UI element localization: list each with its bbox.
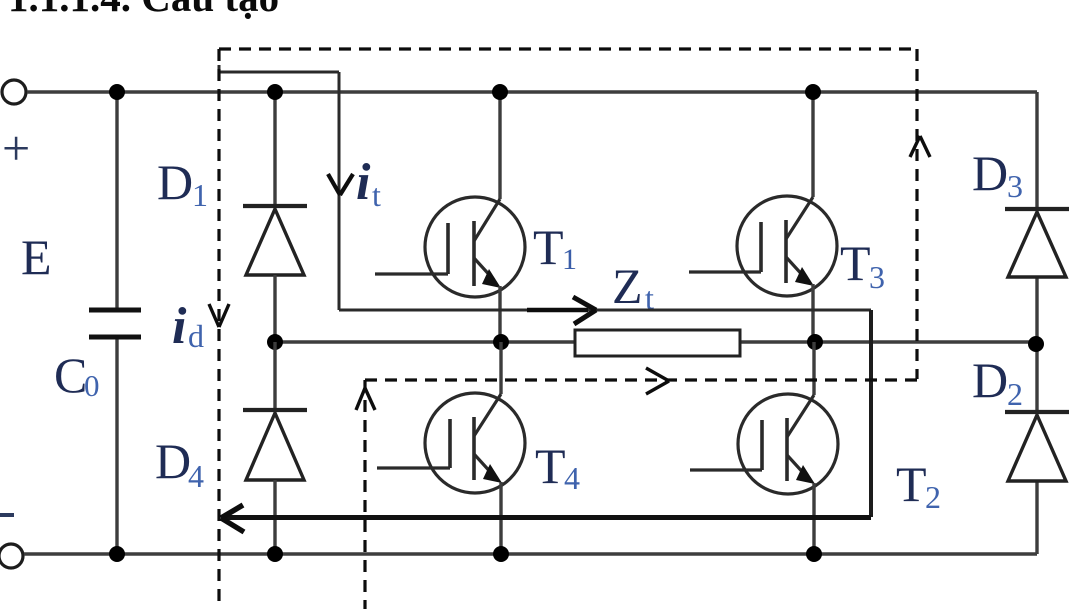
transistor T4 (IGBT) (377, 393, 525, 493)
svg-text:D: D (972, 352, 1008, 408)
svg-text:Z: Z (612, 258, 643, 314)
svg-text:3: 3 (1007, 168, 1023, 204)
dashed loop right vertical (915, 49, 918, 379)
svg-text:1: 1 (192, 177, 208, 213)
arrow dashed up (right side, open) (910, 136, 930, 157)
dashed loop left vertical (id path) (217, 49, 220, 609)
diode D3 (1005, 209, 1069, 277)
terminal top-left circle (2, 80, 26, 104)
wire solid loop it start stub (218, 65, 221, 78)
wire top rail (27, 90, 1037, 93)
dashed loop middle horizontal (365, 378, 917, 381)
wire T2 branch top (812, 342, 815, 395)
svg-text:d: d (188, 318, 204, 354)
wire D1 branch upper (273, 92, 276, 206)
arrow loop right (into load, open barbs) (527, 297, 596, 324)
node dot D4 bottom (267, 546, 283, 562)
dashed loop top horizontal (219, 47, 917, 50)
minus label (0, 513, 14, 517)
svg-text:T: T (896, 456, 927, 512)
wire D1 to mid rail (273, 275, 276, 342)
wire T1 branch top (498, 92, 501, 199)
arrow it (down, open barbs) (328, 174, 353, 195)
svg-text:i: i (356, 154, 371, 211)
wire right branch vertical (1035, 92, 1038, 209)
wire solid loop middle horizontal (339, 309, 871, 312)
node dot top C0 (109, 84, 125, 100)
wire solid loop top segment (219, 71, 339, 74)
node dot T1 top (492, 84, 508, 100)
svg-text:4: 4 (188, 458, 204, 494)
arrow id (down, open) (209, 304, 229, 327)
svg-text:+: + (2, 120, 30, 176)
terminal bottom-left circle (0, 544, 23, 568)
arrow dashed right (middle, open) (646, 368, 669, 394)
diode D4 (243, 410, 307, 480)
wire D4 branch upper (273, 342, 276, 410)
svg-text:D: D (972, 145, 1008, 201)
svg-text:3: 3 (869, 259, 885, 295)
wire T3 to mid rail (811, 284, 814, 342)
svg-text:E: E (21, 229, 52, 285)
node dot D3 mid rail (1028, 336, 1044, 352)
svg-text:2: 2 (925, 479, 941, 515)
wire T4 to bottom rail (499, 482, 502, 554)
svg-text:C: C (54, 347, 87, 403)
wire bottom rail (24, 552, 1037, 555)
wire mid rail (load rail) (275, 340, 1037, 343)
node dot D1 top (267, 84, 283, 100)
wire C0 branch (115, 92, 118, 310)
svg-text:T: T (533, 219, 564, 275)
diode D2 (1005, 412, 1069, 481)
node dot T1 mid (493, 334, 509, 350)
node dot T4 bottom (493, 546, 509, 562)
svg-text:0: 0 (84, 368, 100, 403)
svg-text:D: D (155, 433, 191, 489)
load Zt rectangle (575, 330, 740, 356)
svg-text:D: D (157, 154, 193, 210)
wire solid loop bottom thick segment (222, 515, 871, 520)
dashed loop middle vertical (363, 380, 366, 609)
svg-text:T: T (840, 235, 871, 291)
transistor T1 (IGBT) (375, 197, 525, 297)
svg-text:t: t (372, 177, 381, 213)
wire T2 to bottom rail (812, 483, 815, 554)
node dot T2 bottom (806, 546, 822, 562)
svg-text:1: 1 (562, 243, 577, 276)
svg-text:T: T (535, 438, 566, 494)
node dot T3 top (805, 84, 821, 100)
node dot T3 mid (807, 334, 823, 350)
transistor T2 (IGBT) (690, 394, 838, 494)
diode D1 (243, 206, 307, 275)
arrow dashed up (middle, open) (356, 388, 375, 410)
node dot bottom C0 (109, 546, 125, 562)
capacitor C0 plates (89, 308, 141, 313)
svg-text:i: i (172, 298, 187, 355)
wire T3 branch top (811, 92, 814, 197)
transistor T3 (IGBT) (689, 196, 837, 296)
wire solid loop left vertical (338, 72, 341, 310)
svg-text:2: 2 (1007, 376, 1023, 412)
wire solid loop right vertical (869, 310, 873, 517)
wire D4 to bottom rail (273, 480, 276, 554)
svg-text:4: 4 (564, 460, 580, 496)
arrow loop left end (open barbs) (221, 505, 244, 532)
wire T4 branch top (499, 342, 502, 394)
node dot D1 mid rail (267, 334, 283, 350)
wire T1 to mid rail (498, 286, 501, 342)
svg-text:1.1.1.4. Cấu tạo: 1.1.1.4. Cấu tạo (8, 0, 279, 20)
